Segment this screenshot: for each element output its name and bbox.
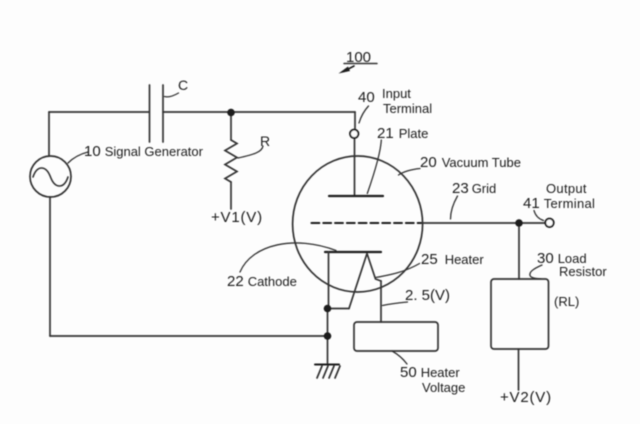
svg-text:Voltage: Voltage (422, 380, 465, 395)
svg-text:25Heater: 25Heater (421, 251, 484, 268)
svg-text:20Vacuum Tube: 20Vacuum Tube (420, 154, 521, 171)
svg-text:R: R (260, 133, 270, 149)
svg-text:C: C (178, 77, 188, 93)
svg-text:50Heater: 50Heater (400, 364, 460, 381)
svg-text:41Terminal: 41Terminal (523, 195, 595, 212)
svg-text:23Grid: 23Grid (452, 180, 496, 197)
svg-text:21Plate: 21Plate (377, 125, 428, 142)
svg-text:+V2(V): +V2(V) (500, 389, 552, 406)
svg-text:22Cathode: 22Cathode (227, 273, 297, 290)
svg-text:+V1(V): +V1(V) (211, 209, 263, 226)
svg-text:Resistor: Resistor (559, 264, 607, 279)
svg-text:40: 40 (358, 89, 375, 106)
svg-text:Output: Output (546, 181, 587, 196)
svg-text:Input: Input (382, 86, 411, 101)
svg-text:Terminal: Terminal (383, 101, 432, 116)
svg-text:100: 100 (346, 49, 371, 66)
svg-text:2. 5(V): 2. 5(V) (405, 287, 450, 304)
svg-text:(RL): (RL) (554, 294, 579, 309)
